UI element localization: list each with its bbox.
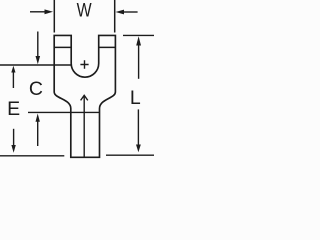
bottom-left extension line — [0, 155, 64, 157]
W extension line left — [53, 0, 55, 33]
right prong band line — [99, 46, 116, 48]
svg-text:C: C — [29, 78, 43, 100]
L up arrow — [136, 36, 141, 45]
C dimension line — [0, 64, 71, 66]
C down arrow — [37, 32, 39, 57]
L top extension line — [123, 34, 154, 36]
svg-text:W: W — [77, 0, 92, 22]
left prong band line — [54, 46, 71, 48]
terminal outline — [54, 35, 115, 157]
W extension line right — [114, 0, 116, 33]
W arrow left — [30, 11, 45, 13]
E down arrow — [13, 129, 15, 146]
plus mark at slot center — [80, 60, 88, 69]
L bottom extension line — [106, 154, 154, 156]
L down arrow — [137, 109, 139, 145]
C up arrow — [12, 72, 14, 89]
E dimension line — [28, 111, 100, 113]
svg-text:E: E — [7, 98, 20, 120]
W arrow right — [122, 11, 138, 13]
svg-text:L: L — [130, 87, 141, 109]
barrel center line with open arrow — [83, 96, 85, 158]
E up arrow — [36, 114, 40, 122]
